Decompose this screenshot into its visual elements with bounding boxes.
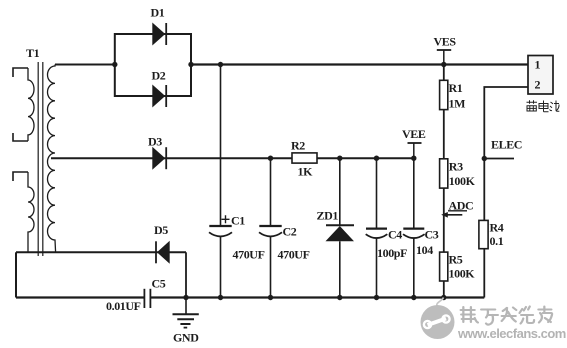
svg-text:100pF: 100pF — [377, 246, 407, 260]
wire VEE rail — [51, 157, 414, 159]
secondary winding — [47, 65, 55, 253]
svg-text:T1: T1 — [26, 46, 40, 60]
node VES junction — [441, 62, 446, 67]
wire VES top rail — [191, 63, 528, 65]
net label ADC with arrow — [441, 199, 473, 218]
svg-text:1: 1 — [535, 58, 541, 72]
node bridge left — [112, 62, 117, 67]
svg-text:C1: C1 — [231, 214, 245, 228]
resistor R1 — [440, 80, 466, 110]
wire R3 to R5 — [443, 188, 445, 252]
ground GND symbol — [173, 298, 200, 345]
capacitor C3 — [403, 158, 439, 297]
node VEE rail ZD1 — [337, 156, 342, 161]
node ground C1 — [218, 295, 223, 300]
wire pin2 to R4 column — [484, 87, 528, 220]
svg-text:2: 2 — [535, 78, 541, 92]
resistor R2 — [291, 139, 317, 179]
svg-text:D3: D3 — [148, 135, 162, 149]
svg-text:C5: C5 — [152, 277, 166, 291]
wire primary top lead with stub — [13, 68, 28, 77]
svg-text:1K: 1K — [298, 165, 314, 179]
svg-text:VEE: VEE — [402, 127, 426, 141]
primary winding P2 — [28, 172, 34, 252]
svg-text:ZD1: ZD1 — [317, 209, 339, 223]
svg-text:www.elecfans.com: www.elecfans.com — [457, 326, 566, 341]
svg-text:C2: C2 — [283, 225, 297, 239]
node ground R5 — [441, 295, 446, 300]
svg-text:100K: 100K — [449, 174, 476, 188]
svg-text:470UF: 470UF — [233, 248, 265, 262]
resistor R5 — [440, 252, 476, 281]
node bridge right — [188, 62, 193, 67]
svg-text:R4: R4 — [490, 221, 504, 235]
watermark stamp — [421, 298, 455, 340]
primary winding P1 — [28, 68, 34, 141]
svg-text:104: 104 — [416, 243, 433, 257]
diode D1 — [151, 6, 167, 46]
wire left drop — [15, 252, 17, 297]
transformer T1 — [13, 46, 56, 256]
wire secondary top lead to bridge — [55, 64, 115, 66]
svg-text:D2: D2 — [152, 69, 166, 83]
svg-text:D1: D1 — [151, 6, 165, 20]
node ground D5 — [183, 295, 188, 300]
resistor R4 — [479, 220, 504, 248]
svg-text:GND: GND — [173, 331, 199, 345]
svg-text:100K: 100K — [449, 267, 476, 281]
capacitor C2 — [259, 158, 310, 297]
diode D5 — [154, 223, 170, 264]
svg-text:470UF: 470UF — [278, 248, 310, 262]
svg-text:R2: R2 — [291, 139, 305, 153]
wire R4 bottom — [483, 249, 485, 298]
watermark chinese text — [461, 307, 552, 325]
diode D2 — [152, 69, 167, 108]
svg-text:D5: D5 — [154, 223, 168, 237]
svg-text:C4: C4 — [388, 228, 402, 242]
transformer core — [37, 62, 39, 256]
svg-text:0.01UF: 0.01UF — [106, 299, 141, 313]
wire ground rail right of C5 — [150, 296, 484, 298]
node C1 top — [218, 62, 223, 67]
wire R1 to R3 — [443, 110, 445, 159]
diode D3 — [148, 135, 166, 170]
node ground C2 — [268, 295, 273, 300]
capacitor C5 — [106, 277, 166, 314]
svg-text:0.1: 0.1 — [490, 234, 504, 248]
node ground C4 — [374, 295, 379, 300]
wire D1/D2 bridge frame — [115, 33, 191, 97]
wire ground rail left of C5 — [16, 296, 144, 298]
wire R5 bottom — [443, 281, 445, 298]
capacitor C1 — [209, 65, 265, 298]
svg-text:C3: C3 — [425, 228, 439, 242]
label 蓄电池 (battery) — [527, 100, 560, 112]
node VEE rail C3 — [411, 156, 416, 161]
svg-text:R5: R5 — [449, 253, 463, 267]
svg-text:VES: VES — [434, 35, 457, 49]
svg-text:R1: R1 — [449, 81, 463, 95]
wire primary lower lead with stub — [13, 172, 28, 181]
wire D5 rail — [16, 251, 186, 253]
capacitor C4 — [366, 158, 407, 297]
zener diode ZD1 — [317, 158, 355, 297]
node VEE rail C4 — [374, 156, 379, 161]
wire primary mid lead with stub — [13, 133, 28, 141]
node ground C3 — [411, 295, 416, 300]
wire D5 drop — [185, 252, 187, 297]
power terminal VEE — [402, 127, 426, 158]
resistor R3 — [440, 159, 476, 188]
connector J1 battery — [528, 56, 553, 95]
wire R1 column top — [443, 65, 445, 81]
net label ELEC — [482, 138, 522, 162]
svg-text:ELEC: ELEC — [491, 138, 522, 152]
node ground ZD1 — [337, 295, 342, 300]
power terminal VES — [434, 35, 457, 65]
node VEE rail C2 — [268, 156, 273, 161]
svg-text:R3: R3 — [449, 160, 463, 174]
svg-text:1M: 1M — [449, 97, 466, 111]
